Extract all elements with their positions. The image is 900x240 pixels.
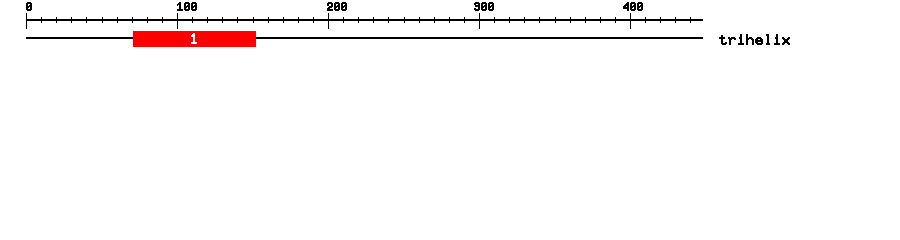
ruler minor ticks every 10 aa [41, 17, 691, 23]
ruler label 200 [327, 2, 347, 11]
ruler major ticks at 0,100,200,300,400 [26, 13, 631, 29]
ruler label 100 [177, 2, 197, 11]
ruler label 300 [474, 2, 494, 11]
protein backbone line [26, 37, 703, 39]
ruler label 0 [26, 2, 32, 11]
background [0, 0, 900, 58]
domain box (red) residues ~71-152 [133, 31, 256, 47]
domain number label 1 [191, 33, 197, 44]
family name trihelix [719, 34, 790, 45]
ruler label 400 [623, 2, 643, 11]
ruler axis line (0-448 aa scale) [26, 19, 703, 21]
